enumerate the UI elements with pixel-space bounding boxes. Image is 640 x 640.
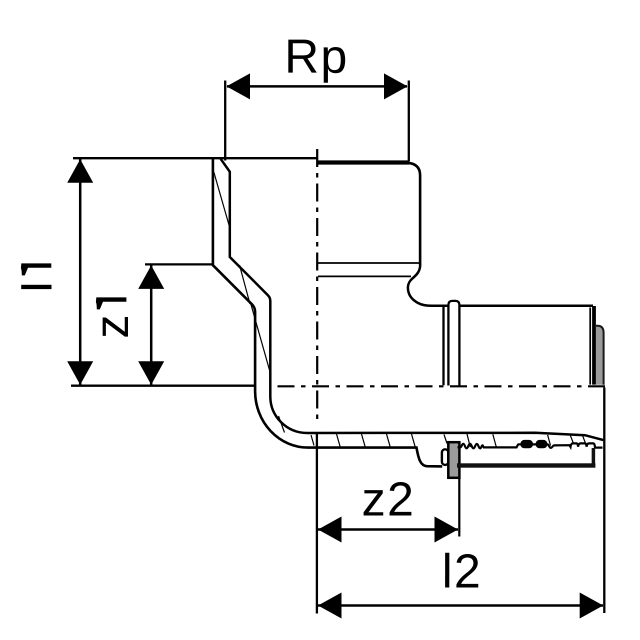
dimension z1 line	[150, 265, 153, 385]
extension line Rp right	[408, 81, 410, 162]
hatch left wall 3	[251, 304, 271, 373]
seam line	[442, 307, 444, 386]
centerline horizontal axis	[278, 385, 612, 387]
hatch left wall 2	[240, 265, 251, 304]
dimension z2 line	[318, 528, 458, 531]
centerline vertical axis	[316, 149, 318, 424]
pipe wall section band	[457, 463, 595, 467]
bead ring upper	[448, 301, 459, 386]
hatch bottom wall 4	[387, 434, 391, 447]
hatch bend	[279, 416, 285, 433]
o-ring groove bump	[442, 449, 448, 465]
hatch nipple 5	[583, 436, 586, 444]
socket end thin line	[589, 308, 591, 385]
dimension l1 bottom arrow	[67, 361, 93, 385]
dimension l1 top arrow	[67, 159, 93, 183]
pipe stub (gray)	[596, 326, 604, 385]
hatch bottom wall 1	[311, 435, 314, 446]
dimension z1 top arrow	[138, 265, 164, 289]
dimension l2 right arrow	[580, 593, 604, 619]
body inner bore outline	[221, 159, 604, 440]
hatch groove	[444, 435, 447, 444]
hatch nipple 3	[548, 435, 551, 446]
dimension Rp line	[227, 85, 407, 88]
body left wall outer outline	[213, 159, 442, 467]
dimension z2 right arrow	[435, 517, 459, 543]
body top edge horizontal section	[459, 305, 593, 308]
pipe end connector	[592, 448, 596, 464]
body top edge thick (right of axis)	[317, 160, 409, 164]
thread relief line 1	[318, 262, 419, 264]
hatch left wall 1	[214, 172, 229, 225]
dimension Rp right arrow	[384, 73, 408, 99]
extension line l2 right	[603, 388, 605, 614]
neck S-curve to horizontal body	[408, 265, 448, 306]
socket end face thick	[592, 306, 596, 385]
o-ring 1	[520, 440, 533, 448]
body top right corner	[407, 163, 420, 265]
dimension l2 line	[318, 604, 603, 607]
svg-text:Rp: Rp	[284, 31, 348, 84]
dimension l2 left arrow	[318, 593, 342, 619]
dimension Rp left arrow	[227, 73, 251, 99]
press indicator collar (gray)	[448, 442, 459, 478]
hatch bottom wall 3	[362, 434, 366, 447]
nipple ribbed profile wavy line	[458, 443, 603, 448]
dimension z1 bottom arrow	[138, 361, 164, 385]
hatch bottom wall 2	[337, 434, 341, 447]
hatch nipple 2	[493, 434, 497, 447]
dimension l1 label (rotated, drawn as paths)	[21, 263, 52, 289]
thread relief line 2	[318, 275, 411, 277]
dimension l1 line	[79, 159, 82, 385]
svg-text:z: z	[86, 315, 139, 339]
svg-text:l2: l2	[442, 545, 482, 598]
svg-text:z2: z2	[362, 473, 416, 526]
extension line top face / l1 top	[73, 157, 317, 159]
extension line z2 right	[458, 468, 460, 537]
hatch bottom wall 5	[412, 434, 416, 447]
extension line z1 top	[145, 263, 213, 265]
hatch nipple 4	[570, 435, 573, 443]
extension line Rp left	[224, 81, 226, 161]
dimension z2 left arrow	[318, 517, 342, 543]
hatch nipple 1	[467, 434, 470, 447]
o-ring 2	[536, 440, 548, 448]
extension line z2/l2 left	[316, 434, 318, 614]
extension line l1 z1 bottom	[71, 385, 256, 387]
